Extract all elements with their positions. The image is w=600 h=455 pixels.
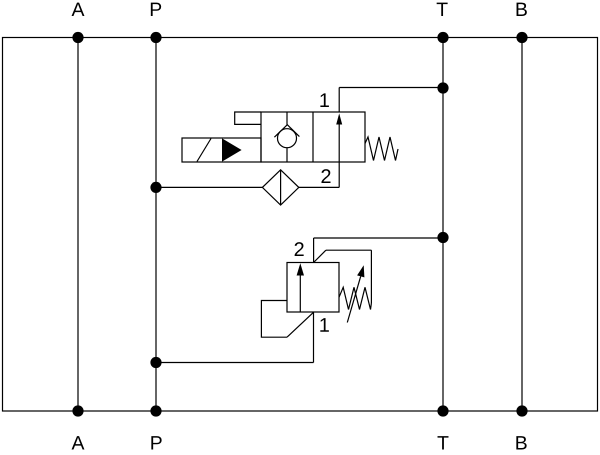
label A bottom (72, 436, 85, 449)
node P line (155, 38, 157, 412)
adjustment arrow head (357, 265, 364, 277)
junction dot P bottom (150, 405, 161, 416)
wire valve1 port 1 to T (339, 87, 443, 89)
valve U1 top-left tab (235, 112, 261, 124)
label A top (72, 3, 85, 16)
flow arrow head (336, 113, 342, 124)
pilot vent top run (326, 249, 372, 251)
wire valve1 port 2 to P (156, 186, 339, 188)
label B bottom (516, 436, 526, 449)
port label 2 (relief valve) (295, 242, 304, 256)
label T bottom (438, 436, 449, 449)
junction dot A bottom (72, 405, 83, 416)
pilot vent drop to spring (370, 250, 372, 303)
node T line (442, 38, 444, 412)
junction dot P mid (port 2 wire) (150, 182, 161, 193)
junction dot T bottom (437, 405, 448, 416)
check valve stem bottom (286, 148, 288, 163)
valve U1 body (2/2 solenoid cartridge valve) (261, 112, 365, 162)
filter F1 diamond (262, 170, 298, 205)
junction dot P (relief port 1 wire) (150, 357, 161, 368)
label T top (437, 3, 448, 16)
solenoid Y1 box (182, 138, 261, 162)
wire valve1 port 2 drop (338, 162, 340, 187)
valve U1 position divider (312, 112, 314, 162)
node B line (521, 38, 523, 412)
filter F1 center line (280, 170, 282, 205)
relief valve U2 body (287, 263, 339, 313)
adjustable spring of relief valve (339, 287, 371, 309)
junction dot P top (150, 32, 161, 43)
wire relief port 1 drop (313, 312, 315, 363)
wire valve1 port 1 riser (338, 88, 340, 113)
wire relief port 2 riser (313, 238, 315, 263)
pilot vent diagonal (314, 250, 326, 262)
junction dot B bottom (516, 405, 527, 416)
port label 1 (valve U1) (320, 93, 329, 107)
junction dot T (relief port 2 wire) (437, 232, 448, 243)
label P bottom (151, 436, 161, 449)
label P top (151, 3, 161, 16)
flow arrow (right position) stem (338, 122, 340, 162)
check valve ball circle (278, 129, 297, 148)
solenoid Y1 triangle (222, 138, 242, 161)
adjustment arrow shaft (347, 276, 360, 322)
solenoid Y1 diagonal (197, 139, 211, 162)
junction dot A top (72, 32, 83, 43)
relief valve flow arrow stem (299, 274, 301, 312)
pilot sense diagonal (287, 312, 314, 337)
junction dot T top (437, 32, 448, 43)
wire relief port 2 to T (314, 237, 443, 239)
wire relief port 1 to P (156, 362, 314, 364)
check valve seat (left position) (274, 125, 299, 138)
relief valve flow arrow head (297, 263, 304, 275)
label B top (517, 3, 527, 16)
port label 1 (relief valve) (320, 318, 329, 332)
pilot sense box (261, 301, 287, 338)
port label 2 (valve U1) (321, 169, 330, 183)
node A line (77, 38, 79, 412)
check valve stem top (286, 112, 288, 125)
spring of valve U1 (365, 137, 398, 161)
junction dot B top (516, 32, 527, 43)
junction dot T (port 1 wire) (437, 82, 448, 93)
